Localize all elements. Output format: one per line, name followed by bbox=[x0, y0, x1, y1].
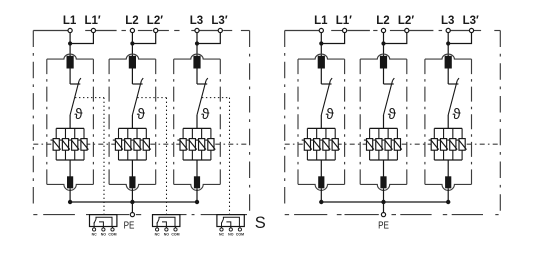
varistor leg 2 bbox=[127, 128, 129, 160]
varistor leg 1 bbox=[306, 128, 308, 160]
signalling contact box 1 bbox=[90, 215, 117, 227]
wire disconnector to switch bbox=[131, 69, 133, 85]
switch blade bbox=[321, 81, 330, 115]
switch blade tip tick bbox=[79, 78, 81, 81]
wire junction to L1&#8242; bbox=[321, 33, 344, 44]
wire junction to L3&#8242; bbox=[448, 33, 471, 44]
wire junction to L2&#8242; bbox=[132, 33, 155, 44]
junction node L1 bbox=[319, 41, 323, 45]
wire varistor bank to lower disconnector bbox=[320, 160, 322, 177]
contact 2 terminal NC bbox=[156, 227, 158, 229]
varistor bank background bbox=[56, 129, 85, 159]
contact 1: blade bbox=[94, 219, 96, 223]
base unit dash-dot line through varistor row bbox=[33, 143, 249, 145]
switch fixed contact stub bbox=[448, 83, 458, 85]
module box bottom edge with wire hop bbox=[109, 184, 156, 190]
contact 1 terminal COM bbox=[112, 227, 114, 229]
varistor leg 2 bbox=[64, 128, 66, 160]
module box left edge bbox=[297, 59, 299, 184]
svg-text:COM: COM bbox=[171, 233, 179, 237]
contact 1 terminal NC bbox=[93, 227, 95, 229]
varistor bank bottom rail bbox=[434, 159, 462, 161]
svg-text:NC: NC bbox=[92, 233, 98, 237]
wire varistor bank to lower disconnector bbox=[447, 160, 449, 177]
enclosure border bottom edge bbox=[285, 214, 289, 216]
varistor element 4 bbox=[143, 139, 149, 151]
switch blade bbox=[384, 81, 393, 115]
switch blade bbox=[448, 81, 457, 115]
terminal L2 circle bbox=[381, 28, 385, 32]
thermal disconnector (filled) top bbox=[129, 56, 136, 69]
svg-text:ϑ: ϑ bbox=[201, 106, 210, 123]
switch blade tip tick bbox=[393, 78, 395, 81]
PE bus node L2 bbox=[381, 200, 385, 204]
svg-text:L1: L1 bbox=[314, 15, 328, 27]
svg-text:L1′: L1′ bbox=[85, 15, 101, 27]
wire junction to L3&#8242; bbox=[197, 33, 220, 44]
varistor leg 3 bbox=[74, 128, 76, 160]
varistor element 2 bbox=[440, 139, 446, 151]
varistor leg 2 bbox=[378, 128, 380, 160]
wire varistor bank to lower disconnector bbox=[131, 160, 133, 177]
varistor bank top rail bbox=[370, 127, 398, 129]
PE terminal circle bbox=[130, 213, 134, 217]
varistor leg 1 bbox=[118, 128, 120, 160]
contact 3 terminal NC bbox=[221, 227, 223, 229]
varistor bank bottom rail bbox=[56, 159, 84, 161]
varistor bank top rail bbox=[307, 127, 335, 129]
thermal disconnector (filled) top bbox=[318, 56, 325, 69]
PE bus node L2 bbox=[130, 200, 134, 204]
wire junction to L2&#8242; bbox=[384, 33, 407, 44]
varistor leg 2 bbox=[191, 128, 193, 160]
wire to PE bus bbox=[196, 188, 198, 202]
svg-text:L3: L3 bbox=[190, 15, 203, 27]
svg-text:L2: L2 bbox=[376, 15, 389, 27]
wire L3 down to junction bbox=[196, 33, 198, 44]
varistor element 3 bbox=[199, 139, 205, 151]
module box left edge bbox=[424, 59, 426, 184]
contact 3 terminal COM bbox=[239, 227, 241, 229]
varistor leg 3 bbox=[136, 128, 138, 160]
varistor bank background bbox=[434, 129, 463, 159]
PE bus wire bbox=[70, 201, 197, 203]
varistor element 4 bbox=[332, 139, 338, 151]
module box top edge with wire hop bbox=[174, 54, 221, 59]
contact 3 terminal NO bbox=[230, 227, 232, 229]
wire disconnector to switch bbox=[383, 69, 385, 85]
module box right edge bbox=[155, 59, 157, 184]
contact 2: COM riser and rail bbox=[159, 217, 175, 226]
contact 2: NC riser bbox=[156, 222, 158, 226]
thermal disconnector (filled) top bbox=[193, 56, 200, 69]
svg-text:NO: NO bbox=[228, 233, 234, 237]
PE terminal circle bbox=[381, 213, 385, 217]
varistor element 1 bbox=[53, 139, 59, 151]
lower disconnector (filled) bbox=[318, 176, 324, 188]
varistor bank top rail bbox=[183, 127, 211, 129]
module box top edge with wire hop bbox=[360, 54, 407, 59]
varistor leg 2 bbox=[316, 128, 318, 160]
wire to PE bus bbox=[320, 188, 322, 202]
svg-text:NC: NC bbox=[219, 233, 225, 237]
svg-text:L2′: L2′ bbox=[398, 15, 414, 27]
svg-text:NO: NO bbox=[101, 233, 107, 237]
wire junction to disconnector bbox=[196, 44, 198, 58]
varistor leg 1 bbox=[182, 128, 184, 160]
module box bottom edge with wire hop bbox=[47, 184, 94, 190]
signalling contact box 3 bbox=[217, 215, 244, 227]
signalling linkage dotted line module 3 bbox=[202, 97, 230, 99]
wire bus to PE terminal bbox=[383, 202, 385, 215]
varistor bank bottom rail bbox=[119, 159, 147, 161]
varistor leg 2 bbox=[443, 128, 445, 160]
thermal disconnector (filled) top bbox=[67, 56, 74, 69]
lower disconnector (filled) bbox=[129, 176, 135, 188]
wire L2 down to junction bbox=[131, 33, 133, 44]
switch blade tip tick bbox=[330, 78, 332, 81]
module box left edge bbox=[173, 59, 175, 184]
varistor bank top rail bbox=[56, 127, 84, 129]
module box bottom edge with wire hop bbox=[425, 184, 472, 190]
varistor element 2 bbox=[314, 139, 320, 151]
varistor bank bottom rail bbox=[370, 159, 398, 161]
svg-text:NC: NC bbox=[155, 233, 161, 237]
contact 1: NO stub bbox=[99, 222, 103, 227]
varistor element 1 bbox=[304, 139, 310, 151]
switch fixed contact stub bbox=[197, 83, 207, 85]
module box right edge bbox=[92, 59, 94, 184]
terminal L3&#8242; circle bbox=[218, 28, 222, 32]
varistor element 1 bbox=[115, 139, 121, 151]
switch blade tip tick bbox=[457, 78, 459, 81]
wire varistor bank to lower disconnector bbox=[69, 160, 71, 177]
svg-text:ϑ: ϑ bbox=[74, 106, 83, 123]
varistor leg 1 bbox=[369, 128, 371, 160]
wire L1 down to junction bbox=[69, 33, 71, 44]
wire L3 down to junction bbox=[447, 33, 449, 44]
wire to PE bus bbox=[131, 188, 133, 202]
switch fixed contact stub bbox=[321, 83, 331, 85]
varistor bank bottom rail bbox=[183, 159, 211, 161]
module box left edge bbox=[359, 59, 361, 184]
varistor leg 3 bbox=[387, 128, 389, 160]
svg-text:L1: L1 bbox=[63, 15, 77, 27]
enclosure border right edge bbox=[249, 31, 251, 211]
terminal L1 circle bbox=[68, 28, 72, 32]
varistor leg 3 bbox=[452, 128, 454, 160]
varistor bank background bbox=[369, 129, 398, 159]
svg-text:L2: L2 bbox=[125, 15, 138, 27]
right schematic: enclosure dash-dot border left edge bbox=[284, 31, 286, 204]
svg-text:L3: L3 bbox=[441, 15, 454, 27]
junction node L3 bbox=[446, 41, 450, 45]
wire junction to disconnector bbox=[383, 44, 385, 58]
wire to PE bus bbox=[447, 188, 449, 202]
varistor bank background bbox=[182, 129, 211, 159]
switch fixed contact stub bbox=[70, 83, 80, 85]
junction node L2 bbox=[130, 41, 134, 45]
module box right edge bbox=[471, 59, 473, 184]
switch blade tip tick bbox=[141, 78, 143, 81]
varistor element 3 bbox=[385, 139, 391, 151]
terminal L2&#8242; circle bbox=[405, 28, 409, 32]
lower disconnector (filled) bbox=[380, 176, 386, 188]
contact 1: NC riser bbox=[93, 222, 95, 226]
varistor leg 4 bbox=[145, 128, 147, 160]
wire disconnector to switch bbox=[320, 69, 322, 85]
signalling contact box 2 bbox=[153, 215, 180, 227]
wire disconnector to switch bbox=[69, 69, 71, 85]
enclosure border right edge bbox=[499, 31, 501, 211]
PE bus node L3 bbox=[195, 200, 199, 204]
svg-text:ϑ: ϑ bbox=[452, 106, 461, 123]
varistor element 3 bbox=[134, 139, 140, 151]
varistor leg 3 bbox=[201, 128, 203, 160]
wire switch to varistor bank bbox=[196, 115, 198, 128]
varistor leg 4 bbox=[210, 128, 212, 160]
wire junction to L1&#8242; bbox=[70, 33, 93, 44]
contact 2: NO stub bbox=[162, 222, 166, 227]
contact 3: NC riser bbox=[221, 222, 223, 226]
contact 2: blade bbox=[157, 219, 159, 223]
varistor element 4 bbox=[459, 139, 465, 151]
varistor element 2 bbox=[376, 139, 382, 151]
varistor element 2 bbox=[125, 139, 131, 151]
switch fixed contact stub bbox=[132, 83, 142, 85]
varistor element 3 bbox=[450, 139, 456, 151]
wire switch to varistor bank bbox=[320, 115, 322, 128]
module box top edge with wire hop bbox=[47, 54, 94, 59]
module box left edge bbox=[46, 59, 48, 184]
svg-text:ϑ: ϑ bbox=[326, 106, 335, 123]
module box bottom edge with wire hop bbox=[360, 184, 407, 190]
thermal disconnector (filled) top bbox=[445, 56, 452, 69]
svg-text:L2′: L2′ bbox=[147, 15, 163, 27]
module box right edge bbox=[406, 59, 408, 184]
signalling linkage dotted line module 1 bbox=[75, 97, 104, 99]
svg-text:NO: NO bbox=[164, 233, 170, 237]
varistor leg 4 bbox=[396, 128, 398, 160]
module box top edge with wire hop bbox=[425, 54, 472, 59]
lower disconnector (filled) bbox=[194, 176, 200, 188]
wire junction to disconnector bbox=[320, 44, 322, 58]
svg-text:PE: PE bbox=[378, 220, 389, 231]
svg-text:ϑ: ϑ bbox=[388, 106, 397, 123]
left schematic: enclosure dash-dot border left edge bbox=[32, 31, 34, 204]
varistor leg 1 bbox=[433, 128, 435, 160]
module box bottom edge with wire hop bbox=[298, 184, 345, 190]
module box top edge with wire hop bbox=[298, 54, 345, 59]
varistor bank background bbox=[118, 129, 147, 159]
module box right edge bbox=[344, 59, 346, 184]
wire switch to varistor bank bbox=[131, 115, 133, 128]
module box bottom edge with wire hop bbox=[174, 184, 221, 190]
signalling linkage dotted line module 2 bbox=[137, 97, 166, 99]
svg-text:ϑ: ϑ bbox=[137, 106, 146, 123]
PE bus node L1 bbox=[68, 200, 72, 204]
junction node L3 bbox=[195, 41, 199, 45]
wire switch to varistor bank bbox=[69, 115, 71, 128]
module box left edge bbox=[108, 59, 110, 184]
thermal disconnector (filled) top bbox=[380, 56, 387, 69]
lower disconnector (filled) bbox=[67, 176, 73, 188]
varistor element 4 bbox=[394, 139, 400, 151]
svg-text:L3′: L3′ bbox=[463, 15, 479, 27]
PE bus wire bbox=[321, 201, 448, 203]
enclosure border top edge bbox=[285, 30, 320, 32]
switch blade bbox=[132, 81, 141, 115]
terminal L3&#8242; circle bbox=[469, 28, 473, 32]
varistor element 2 bbox=[189, 139, 195, 151]
contact 2 terminal COM bbox=[175, 227, 177, 229]
terminal L2 circle bbox=[130, 28, 134, 32]
base unit dash-dot line through varistor row bbox=[285, 143, 501, 145]
varistor bank top rail bbox=[119, 127, 147, 129]
wire junction to disconnector bbox=[447, 44, 449, 58]
contact 3: NO stub bbox=[226, 222, 230, 227]
varistor element 3 bbox=[323, 139, 329, 151]
lower disconnector (filled) bbox=[445, 176, 451, 188]
enclosure border top edge bbox=[33, 30, 68, 32]
terminal L3 circle bbox=[195, 28, 199, 32]
wire varistor bank to lower disconnector bbox=[196, 160, 198, 177]
switch fixed contact stub bbox=[384, 83, 394, 85]
contact 3: blade bbox=[221, 219, 223, 223]
varistor leg 3 bbox=[325, 128, 327, 160]
varistor leg 1 bbox=[55, 128, 57, 160]
module box top edge with wire hop bbox=[109, 54, 156, 59]
contact 1 terminal NO bbox=[102, 227, 104, 229]
terminal L1&#8242; circle bbox=[343, 28, 347, 32]
module box right edge bbox=[219, 59, 221, 184]
wire to PE bus bbox=[383, 188, 385, 202]
varistor element 1 bbox=[367, 139, 373, 151]
varistor element 2 bbox=[62, 139, 68, 151]
PE bus node L1 bbox=[319, 200, 323, 204]
wire switch to varistor bank bbox=[447, 115, 449, 128]
wire disconnector to switch bbox=[196, 69, 198, 85]
switch blade bbox=[197, 81, 206, 115]
terminal L1&#8242; circle bbox=[91, 28, 95, 32]
varistor element 3 bbox=[72, 139, 78, 151]
PE bus node L3 bbox=[446, 200, 450, 204]
wire junction to disconnector bbox=[131, 44, 133, 58]
wire L1 down to junction bbox=[320, 33, 322, 44]
varistor element 1 bbox=[180, 139, 186, 151]
contact 3: COM riser and rail bbox=[223, 217, 239, 226]
varistor leg 4 bbox=[334, 128, 336, 160]
varistor leg 4 bbox=[83, 128, 85, 160]
varistor element 4 bbox=[81, 139, 87, 151]
varistor bank background bbox=[307, 129, 336, 159]
wire L2 down to junction bbox=[383, 33, 385, 44]
svg-text:COM: COM bbox=[236, 233, 244, 237]
terminal L1 circle bbox=[319, 28, 323, 32]
wire bus to PE terminal bbox=[131, 202, 133, 215]
varistor leg 4 bbox=[461, 128, 463, 160]
wire to PE bus bbox=[69, 188, 71, 202]
svg-text:PE: PE bbox=[124, 220, 135, 231]
svg-text:L1′: L1′ bbox=[336, 15, 352, 27]
wire junction to disconnector bbox=[69, 44, 71, 58]
wire disconnector to switch bbox=[447, 69, 449, 85]
contact 1: COM riser and rail bbox=[96, 217, 112, 226]
varistor element 1 bbox=[431, 139, 437, 151]
switch blade bbox=[70, 81, 79, 115]
switch blade tip tick bbox=[206, 78, 208, 81]
junction node L2 bbox=[381, 41, 385, 45]
enclosure border bottom edge bbox=[33, 214, 37, 216]
wire switch to varistor bank bbox=[383, 115, 385, 128]
contact 2 terminal NO bbox=[165, 227, 167, 229]
varistor bank top rail bbox=[434, 127, 462, 129]
terminal L3 circle bbox=[446, 28, 450, 32]
varistor element 4 bbox=[208, 139, 214, 151]
varistor bank bottom rail bbox=[307, 159, 335, 161]
svg-text:COM: COM bbox=[108, 233, 116, 237]
svg-text:S: S bbox=[255, 214, 266, 232]
wire varistor bank to lower disconnector bbox=[383, 160, 385, 177]
junction node L1 bbox=[68, 41, 72, 45]
terminal L2&#8242; circle bbox=[154, 28, 158, 32]
svg-text:L3′: L3′ bbox=[211, 15, 227, 27]
